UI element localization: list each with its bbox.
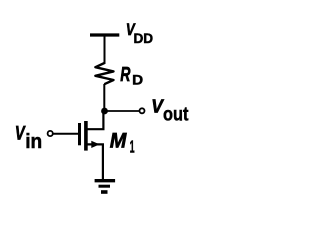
svg-text:DD: DD: [134, 31, 154, 46]
svg-text:1: 1: [130, 137, 135, 157]
transistor M1 channel bar: [84, 121, 88, 151]
transistor M1 gate bar: [78, 123, 81, 145]
ground bar 2: [99, 185, 111, 188]
svg-text:out: out: [163, 104, 189, 125]
svg-text:in: in: [25, 131, 42, 153]
transistor M1 drain lead: [87, 111, 103, 129]
wire: gate lead from input: [53, 133, 78, 135]
terminal: V_out open circle: [140, 108, 145, 113]
transistor M1 source lead with arrow: [87, 144, 103, 179]
node: drain junction dot: [101, 108, 108, 115]
svg-text:R: R: [120, 64, 131, 86]
VDD supply bar: [90, 33, 119, 36]
svg-text:V: V: [15, 124, 26, 145]
ground bar 3: [101, 190, 108, 194]
svg-text:M: M: [110, 130, 127, 153]
ground bar 1: [95, 179, 116, 182]
transistor M1 source arrowhead: [91, 141, 99, 148]
wire: VDD bar to resistor top: [104, 36, 106, 64]
terminal: V_in open circle: [48, 131, 53, 136]
resistor R_D: [95, 63, 113, 84]
wire: node to output terminal: [104, 110, 139, 112]
wire: resistor bottom to drain node: [103, 84, 105, 111]
svg-text:D: D: [132, 71, 143, 87]
